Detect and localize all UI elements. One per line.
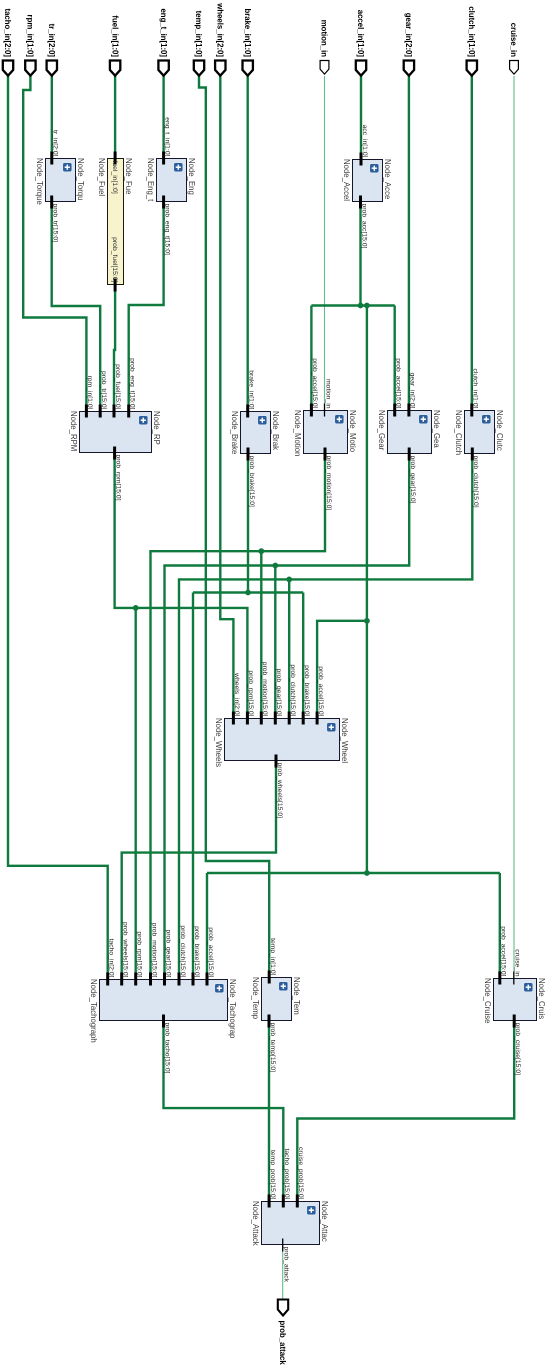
- node Node_Temp U11: [251, 938, 301, 1072]
- node Node_Fuel U3: [97, 152, 133, 292]
- svg-text:Node_Eng: Node_Eng: [187, 158, 196, 195]
- svg-text:Node_Tachograph: Node_Tachograph: [89, 979, 98, 1043]
- port clutch_in[1:0]: [467, 61, 477, 76]
- node Node_Torque U4: [35, 130, 85, 242]
- node Node_Attack U14: [251, 1147, 329, 1283]
- wire prob_wheels: [122, 761, 276, 980]
- svg-text:prob_brake[15:0]: prob_brake[15:0]: [193, 926, 200, 978]
- svg-text:Node_Fue: Node_Fue: [124, 158, 133, 194]
- svg-text:prob_temp[15:0]: prob_temp[15:0]: [269, 1023, 276, 1073]
- svg-text:temp_in[1:0]: temp_in[1:0]: [269, 938, 276, 976]
- wire prob_motion to Node_Wheels: [260, 551, 262, 718]
- svg-text:prob_rpm[15:0]: prob_rpm[15:0]: [114, 455, 121, 501]
- svg-text:Node_Fuel: Node_Fuel: [97, 158, 106, 196]
- svg-text:prob_clutch[15:0]: prob_clutch[15:0]: [179, 925, 186, 977]
- svg-text:brake_in[1:0]: brake_in[1:0]: [248, 370, 255, 409]
- svg-text:prob_accel[15:0]: prob_accel[15:0]: [395, 358, 402, 408]
- wire prob_acc to Node_Motion: [310, 306, 312, 412]
- svg-text:Node_Wheel: Node_Wheel: [340, 718, 349, 763]
- junction prob_acc D: [364, 870, 370, 876]
- port tacho_in[2:0]: [3, 61, 13, 76]
- wire fuel_in: [114, 76, 116, 159]
- junction prob_acc C: [364, 618, 370, 624]
- wire prob_acc branch east: [366, 306, 368, 621]
- junction prob_rpm: [133, 605, 139, 611]
- wire prob_fuel: [114, 285, 115, 411]
- wire prob_eng_t: [129, 201, 164, 411]
- svg-text:prob_rpm[15:0]: prob_rpm[15:0]: [136, 931, 143, 977]
- svg-text:prob_wheels[15:0]: prob_wheels[15:0]: [122, 922, 129, 978]
- port fuel_in[1:0]: [110, 61, 120, 76]
- svg-text:accel_in[1:0]: accel_in[1:0]: [356, 10, 365, 58]
- wire prob_acc to Node_Gear: [394, 306, 396, 412]
- wire prob_rpm to Node_Wheels: [115, 453, 248, 719]
- wire eng_t_in: [162, 76, 164, 159]
- port prob_attack: [278, 1300, 288, 1316]
- svg-text:Node_Brake: Node_Brake: [230, 411, 239, 454]
- svg-text:temp_in[1:0]: temp_in[1:0]: [194, 11, 203, 58]
- svg-text:prob_clutch[15:0]: prob_clutch[15:0]: [472, 456, 479, 508]
- svg-text:Node_Attack: Node_Attack: [251, 1201, 260, 1246]
- wire brake_in: [247, 76, 249, 411]
- wire prob_attack: [282, 1245, 284, 1300]
- wire rpm_in: [23, 76, 86, 411]
- wire tr_in: [51, 76, 53, 159]
- wire prob_acc vertical track x305: [311, 304, 394, 306]
- svg-text:prob_clutch[15:0]: prob_clutch[15:0]: [289, 664, 296, 716]
- node Node_Tachograph U12: [89, 922, 237, 1074]
- svg-text:cruise_in: cruise_in: [514, 949, 521, 976]
- svg-text:Node_Accel: Node_Accel: [342, 159, 351, 201]
- wire prob_acc to Node_Tachograph: [206, 873, 208, 979]
- svg-text:prob_tr[15:0]: prob_tr[15:0]: [52, 204, 59, 243]
- node Node_Accel U1: [342, 125, 392, 249]
- wire temp_in: [199, 76, 269, 978]
- svg-text:Node_RP: Node_RP: [152, 411, 161, 445]
- wire prob_acc to Node_Cruise: [499, 873, 501, 978]
- svg-text:Node_Temp: Node_Temp: [251, 977, 260, 1020]
- svg-text:prob_gear[15:0]: prob_gear[15:0]: [409, 456, 416, 504]
- wire prob_cruise: [297, 1020, 514, 1202]
- wire prob_gear to Node_Wheels: [274, 566, 276, 719]
- svg-text:Node_Gea: Node_Gea: [432, 410, 441, 448]
- svg-text:Node_Brak: Node_Brak: [271, 411, 280, 450]
- svg-text:prob_eng_t[15:0]: prob_eng_t[15:0]: [163, 204, 170, 256]
- wire prob_gear to Node_Tachograph: [165, 453, 410, 979]
- svg-text:rpm_in[1:0]: rpm_in[1:0]: [26, 15, 35, 58]
- junction prob_clutch: [286, 577, 292, 583]
- svg-text:prob_cruise[15:0]: prob_cruise[15:0]: [514, 1023, 521, 1076]
- svg-text:prob_motion[15:0]: prob_motion[15:0]: [325, 456, 332, 511]
- svg-text:prob_accel[15:0]: prob_accel[15:0]: [207, 927, 214, 977]
- svg-text:brake_in[1:0]: brake_in[1:0]: [243, 8, 252, 57]
- svg-text:eng_t_in[1:0]: eng_t_in[1:0]: [159, 8, 168, 57]
- svg-text:clutch_in[1:0]: clutch_in[1:0]: [472, 368, 479, 408]
- svg-text:wheels_in[2:0]: wheels_in[2:0]: [233, 672, 240, 717]
- svg-text:motion_in: motion_in: [320, 20, 329, 57]
- svg-text:prob_accel[15:0]: prob_accel[15:0]: [311, 358, 318, 408]
- svg-text:tacho_prob[15:0]: tacho_prob[15:0]: [283, 1148, 290, 1199]
- svg-text:Node_Motio: Node_Motio: [348, 410, 357, 453]
- port rpm_in[1:0]: [25, 61, 35, 76]
- svg-text:tacho_in[2:0]: tacho_in[2:0]: [3, 8, 12, 57]
- svg-text:prob_tr[15:0]: prob_tr[15:0]: [100, 371, 107, 410]
- svg-text:Node_Eng_t: Node_Eng_t: [146, 158, 155, 202]
- junction prob_gear: [272, 563, 278, 569]
- wire prob_brake to Node_Wheels: [302, 593, 304, 719]
- svg-text:prob_eng_t[15:0]: prob_eng_t[15:0]: [129, 358, 136, 410]
- port wheels_in[2:0]: [215, 61, 225, 76]
- svg-text:prob_motion[15:0]: prob_motion[15:0]: [150, 923, 157, 978]
- svg-text:cruise_prob[15:0]: cruise_prob[15:0]: [297, 1147, 304, 1200]
- svg-text:prob_attack: prob_attack: [283, 1247, 290, 1283]
- wire prob_clutch to Node_Tachograph: [179, 453, 472, 979]
- svg-text:Node_Attac: Node_Attac: [320, 1201, 329, 1242]
- svg-text:prob_accel[15:0]: prob_accel[15:0]: [500, 926, 507, 976]
- svg-text:fuel_in[1:0]: fuel_in[1:0]: [110, 15, 119, 57]
- junction prob_acc B: [364, 303, 370, 309]
- junction prob_acc A: [358, 303, 364, 309]
- node Node_Wheels U10: [214, 662, 349, 818]
- svg-text:Node_Tachograp: Node_Tachograp: [228, 979, 237, 1039]
- port temp_in[1:0]: [194, 61, 204, 76]
- svg-text:wheels_in[2:0]: wheels_in[2:0]: [216, 2, 225, 57]
- wire clutch_in: [471, 76, 473, 411]
- wire prob_brake to Node_Tachograph: [192, 593, 194, 980]
- svg-text:prob_gear[15:0]: prob_gear[15:0]: [164, 930, 171, 978]
- svg-text:prob_accel[15:0]: prob_accel[15:0]: [317, 666, 324, 716]
- wire cruise_in: [513, 76, 515, 978]
- svg-text:tr_in[2:0]: tr_in[2:0]: [52, 130, 59, 157]
- svg-text:Node_Motion: Node_Motion: [293, 410, 302, 456]
- svg-text:motion_in: motion_in: [324, 379, 331, 409]
- svg-text:Node_RPM: Node_RPM: [69, 411, 78, 451]
- wire accel_in: [360, 76, 362, 160]
- svg-text:Node_Torque: Node_Torque: [35, 158, 44, 205]
- svg-text:prob_fuel[15:0]: prob_fuel[15:0]: [111, 237, 118, 282]
- svg-text:cruise_in: cruise_in: [509, 23, 518, 57]
- junction prob_motion: [258, 548, 264, 554]
- port gear_in[2:0]: [404, 61, 414, 76]
- port eng_t_in[1:0]: [158, 61, 168, 76]
- svg-text:prob_attack: prob_attack: [278, 1321, 287, 1366]
- wire prob_acc to Node_Wheels: [317, 621, 367, 719]
- wire prob_tacho: [164, 1021, 284, 1202]
- svg-text:temp_prob[15:0]: temp_prob[15:0]: [269, 1150, 276, 1200]
- wire prob_clutch to Node_Wheels: [288, 579, 290, 718]
- port motion_in: [320, 61, 329, 75]
- wire prob_tr: [52, 202, 101, 412]
- svg-text:Node_Clutch: Node_Clutch: [454, 410, 463, 455]
- svg-text:Node_Clutc: Node_Clutc: [495, 410, 504, 451]
- svg-text:clutch_in[1:0]: clutch_in[1:0]: [467, 6, 476, 57]
- svg-text:prob_acc[15:0]: prob_acc[15:0]: [360, 204, 367, 249]
- svg-text:Node_Acce: Node_Acce: [383, 159, 392, 199]
- junction prob_brake: [245, 590, 251, 596]
- port brake_in[1:0]: [243, 61, 253, 76]
- svg-text:prob_fuel[15:0]: prob_fuel[15:0]: [114, 364, 121, 409]
- svg-text:eng_t_in[1:0]: eng_t_in[1:0]: [163, 117, 170, 156]
- port tr_in[2:0]: [47, 61, 57, 76]
- svg-text:Node_Wheels: Node_Wheels: [214, 718, 223, 767]
- svg-text:prob_tacho[15:0]: prob_tacho[15:0]: [163, 1023, 170, 1074]
- node Node_Clutch U5: [454, 368, 504, 507]
- wire tacho_in: [8, 76, 108, 979]
- svg-text:Node_Cruise: Node_Cruise: [483, 978, 492, 1024]
- svg-text:prob_gear[15:0]: prob_gear[15:0]: [275, 669, 282, 717]
- port accel_in[1:0]: [356, 61, 366, 76]
- port cruise_in: [510, 61, 519, 75]
- node Node_Gear U6: [377, 358, 441, 503]
- wire prob_acc branch east 2: [366, 621, 368, 873]
- wire motion_in: [324, 76, 326, 411]
- node Node_Eng_t U2: [146, 117, 196, 255]
- svg-text:acc_in[1:0]: acc_in[1:0]: [361, 125, 368, 158]
- svg-text:Node_Cruis: Node_Cruis: [537, 978, 546, 1019]
- svg-text:tr_in[2:0]: tr_in[2:0]: [47, 24, 56, 58]
- svg-text:fuel_in[1:0]: fuel_in[1:0]: [111, 161, 118, 194]
- svg-text:Node_Torqu: Node_Torqu: [76, 158, 85, 200]
- svg-text:prob_brake[15:0]: prob_brake[15:0]: [248, 456, 255, 508]
- wire prob_brake from Node_Brake: [247, 453, 249, 592]
- svg-text:Node_Tem: Node_Tem: [292, 977, 301, 1015]
- wire prob_acc from Node_Accel: [359, 201, 361, 305]
- node Node_Brake U8: [230, 370, 280, 507]
- svg-text:gear_in[2:0]: gear_in[2:0]: [404, 13, 413, 58]
- node Node_Cruise U13: [483, 926, 546, 1075]
- svg-text:prob_motion[15:0]: prob_motion[15:0]: [261, 662, 268, 717]
- svg-text:prob_wheels[15:0]: prob_wheels[15:0]: [276, 763, 283, 819]
- svg-text:gear_in[2:0]: gear_in[2:0]: [409, 373, 416, 409]
- wire prob_temp: [268, 1021, 270, 1202]
- node Node_Motion U7: [293, 358, 357, 510]
- svg-text:rpm_in[1:0]: rpm_in[1:0]: [86, 375, 93, 409]
- wire gear_in: [408, 76, 410, 411]
- wire wheels_in: [220, 76, 233, 719]
- wire prob_brake vertical track x592: [193, 591, 303, 593]
- node Node_RPM U9: [69, 358, 161, 501]
- wire prob_rpm to Node_Tachograph: [135, 608, 137, 979]
- svg-text:tacho_in[2:0]: tacho_in[2:0]: [108, 939, 115, 978]
- wire prob_acc vertical track x873: [207, 872, 500, 874]
- svg-text:Node_Gear: Node_Gear: [377, 410, 386, 451]
- wire prob_motion to Node_Tachograph: [151, 454, 326, 980]
- svg-text:prob_rpm[15:0]: prob_rpm[15:0]: [247, 670, 254, 716]
- svg-text:prob_brake[15:0]: prob_brake[15:0]: [303, 665, 310, 717]
